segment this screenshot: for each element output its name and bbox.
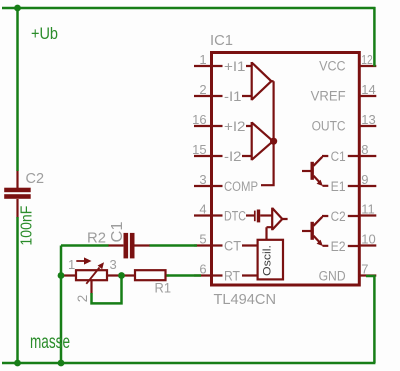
svg-text:VREF: VREF <box>311 89 346 104</box>
svg-text:-I1: -I1 <box>224 89 242 104</box>
svg-text:masse: masse <box>30 332 70 353</box>
svg-text:3: 3 <box>199 172 206 187</box>
svg-text:DTC: DTC <box>224 209 246 224</box>
svg-text:4: 4 <box>199 201 206 216</box>
svg-text:+Ub: +Ub <box>31 25 58 43</box>
svg-text:100nF: 100nF <box>19 206 36 246</box>
svg-text:9: 9 <box>361 172 368 187</box>
svg-text:TL494CN: TL494CN <box>214 292 277 308</box>
svg-text:RT: RT <box>224 269 240 284</box>
svg-text:2: 2 <box>199 82 206 97</box>
svg-text:GND: GND <box>319 269 346 284</box>
svg-text:E1: E1 <box>331 179 346 194</box>
svg-text:COMP: COMP <box>224 179 258 194</box>
svg-text:C2: C2 <box>26 170 45 187</box>
svg-text:12: 12 <box>361 52 373 67</box>
svg-text:VCC: VCC <box>319 59 346 74</box>
svg-text:15: 15 <box>192 142 206 157</box>
svg-text:2: 2 <box>75 295 90 303</box>
svg-text:3: 3 <box>110 257 117 272</box>
svg-text:16: 16 <box>192 112 206 127</box>
svg-text:C1: C1 <box>331 149 346 164</box>
svg-text:-I2: -I2 <box>224 149 242 164</box>
svg-text:7: 7 <box>361 261 368 276</box>
svg-text:C1: C1 <box>109 222 126 243</box>
svg-text:6: 6 <box>199 261 206 276</box>
svg-text:R1: R1 <box>155 280 172 296</box>
svg-text:14: 14 <box>361 82 375 97</box>
svg-text:1: 1 <box>199 52 206 67</box>
svg-text:1: 1 <box>68 257 75 272</box>
svg-text:+I1: +I1 <box>224 59 246 74</box>
svg-text:C2: C2 <box>331 209 346 224</box>
svg-text:Oscil.: Oscil. <box>261 245 273 276</box>
svg-text:8: 8 <box>361 142 368 157</box>
svg-text:R2: R2 <box>87 230 106 247</box>
svg-text:OUTC: OUTC <box>312 119 346 134</box>
svg-text:CT: CT <box>224 239 241 254</box>
svg-text:13: 13 <box>361 112 375 127</box>
svg-text:10: 10 <box>361 231 375 246</box>
svg-text:5: 5 <box>199 231 206 246</box>
svg-text:E2: E2 <box>331 239 346 254</box>
svg-text:+I2: +I2 <box>224 119 246 134</box>
svg-text:IC1: IC1 <box>210 32 233 49</box>
svg-text:11: 11 <box>361 201 375 216</box>
